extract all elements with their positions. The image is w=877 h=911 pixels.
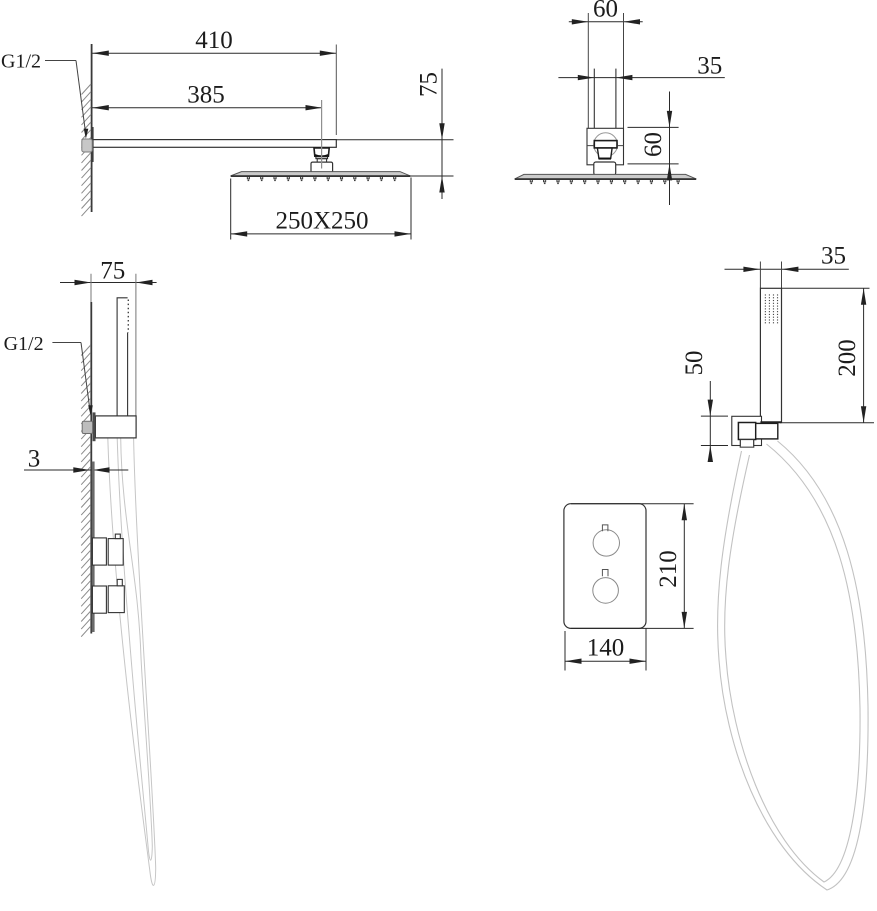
ball joint nut (side view) [314,148,329,157]
head mount block (front view) [594,162,616,175]
wall bracket (hand shower side view) [95,416,136,438]
wall (hand shower side view) [90,302,92,634]
wall (top-left view) [91,44,93,212]
dimension 140 [565,628,646,670]
joint nut (front view) [594,141,617,148]
dimension 410 [92,27,336,135]
wand bottom edge (thick) [760,421,781,423]
elbow outlet nut (front view) [740,440,753,448]
wall elbow escutcheon (front view) [732,416,762,445]
dimension 3 [24,446,128,473]
G1/2 label (hand shower) [4,333,44,355]
wand spray dot grid (front view) [765,294,778,323]
svg-text:50: 50 [681,351,708,376]
dimension 50 [681,351,728,463]
dimension 35 (hand shower front view) [725,243,849,289]
svg-text:75: 75 [416,72,443,97]
wall hatching (hand shower side view) [81,345,91,637]
svg-text:410: 410 [195,27,233,54]
joint centerline (gray) [321,100,323,169]
hand shower wand (side view) [117,298,128,416]
svg-text:35: 35 [697,52,722,79]
dimension 75 (hand shower side view) [60,258,157,416]
mixer knob circle 1 [593,525,619,556]
mixer knob 1 (side view) [92,534,123,565]
wand spray dots (side view) [127,300,129,333]
head mount block (side view) [311,162,333,172]
joint locknut band (side view) [316,157,328,159]
G1/2 leader line (top-left) [45,61,88,139]
svg-text:75: 75 [100,258,125,285]
wall flange (gray, in-wall G1/2 fitting) [82,139,92,152]
svg-text:210: 210 [655,550,682,588]
head nozzles (side view) [247,177,396,181]
svg-text:140: 140 [587,635,625,662]
svg-text:60: 60 [640,132,667,157]
shower arm (side view) [92,140,336,148]
hose connector (front view) [756,423,778,439]
mixer panel edge strip (side view) [92,462,95,633]
svg-text:35: 35 [821,243,846,270]
svg-text:200: 200 [834,339,861,377]
svg-text:G1/2: G1/2 [4,333,44,355]
dimension 60 (vertical, top-right view) [628,92,679,206]
dimension 35 (top-right view) [558,52,724,80]
hand shower wand (front view) [760,288,781,422]
dimension 385 [92,82,322,111]
joint lower collar (side view) [317,159,326,162]
hand shower hose (side view) [108,438,156,885]
G1/2 leader line (hand shower) [52,343,92,416]
dimension 75 (vertical, top-left view) [336,69,453,199]
bracket supply nut (gray) [82,421,92,433]
wall hatching (top-left view) [82,84,92,216]
hand shower hose (front view loop) [718,441,869,890]
joint neck trapezoid (front view) [597,148,612,159]
ball (front view, circle) [594,133,618,157]
dimension 60 (horizontal, top-right view) [569,0,643,128]
dimension 210 [571,504,694,629]
dimension 250X250 [231,178,411,240]
shower head plate (front view) [515,174,697,179]
svg-text:60: 60 [593,0,618,23]
shower head plate (side view) [231,172,411,177]
head nozzles (front view) [530,180,679,184]
svg-text:G1/2: G1/2 [1,51,41,73]
svg-text:3: 3 [28,446,41,473]
mixer knob 2 (side view) [92,579,124,613]
arm tube (front view) [594,69,616,141]
mixer panel (front view) [564,504,646,629]
G1/2 label (top-left) [1,51,41,73]
bracket wall plate (dark strip) [93,412,96,441]
svg-text:250X250: 250X250 [275,208,368,235]
dimension 200 [780,288,874,422]
svg-text:385: 385 [187,82,225,109]
mixer knob circle 2 [593,570,619,604]
elbow block (front view) [738,423,755,440]
wall escutcheon strip (dark, behind arm) [91,127,93,162]
ceiling escutcheon box (front view) [587,128,624,165]
